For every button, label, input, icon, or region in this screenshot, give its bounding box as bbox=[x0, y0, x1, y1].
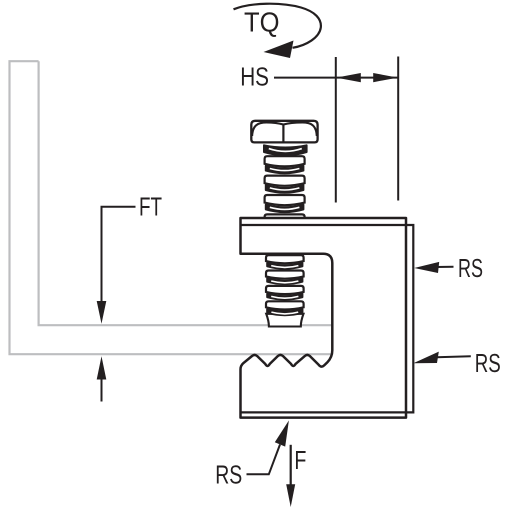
HS right extension line bbox=[397, 57, 399, 201]
HS right arrowhead bbox=[373, 73, 398, 82]
F arrowhead bbox=[286, 484, 295, 507]
RS bottom arrowhead bbox=[275, 420, 289, 446]
bolt hex head outline bbox=[251, 121, 317, 143]
torque arrow ellipse arc bbox=[234, 4, 321, 48]
RS lower leader bbox=[437, 356, 471, 357]
RS bottom leader bbox=[247, 445, 281, 475]
FT up arrowhead bbox=[97, 356, 107, 379]
HS left arrowhead bbox=[336, 73, 361, 82]
bolt hex head center edge bbox=[282, 124, 284, 143]
bolt thread ring 8 (inside clamp mouth) bbox=[266, 301, 304, 309]
svg-text:TQ: TQ bbox=[244, 7, 280, 38]
beam: angle iron vertical leg and flange (gray) bbox=[10, 61, 334, 354]
bolt thread ring 7 (inside clamp mouth) bbox=[266, 286, 304, 294]
HS left extension line bbox=[335, 57, 337, 203]
RS upper leader bbox=[436, 266, 454, 268]
svg-text:RS: RS bbox=[475, 348, 501, 378]
svg-text:F: F bbox=[294, 445, 306, 475]
bolt thread ring 4 (above clamp) bbox=[265, 214, 305, 224]
bolt thread ring 3 (above clamp) bbox=[265, 195, 305, 205]
svg-text:RS: RS bbox=[458, 253, 483, 283]
FT up arrow tail bbox=[101, 379, 103, 402]
FT down arrowhead bbox=[97, 301, 107, 324]
bolt collar under head bbox=[264, 145, 307, 155]
svg-text:FT: FT bbox=[139, 192, 162, 222]
svg-text:HS: HS bbox=[240, 61, 269, 91]
bolt thread ring 1 (above clamp) bbox=[265, 156, 305, 166]
bolt tip bbox=[266, 314, 303, 327]
RS lower arrowhead bbox=[413, 352, 439, 364]
bolt thread ring 6 (inside clamp mouth) bbox=[266, 271, 304, 279]
svg-text:RS: RS bbox=[215, 459, 242, 489]
bolt hex head left chamfer arc bbox=[252, 122, 283, 136]
HS leader line bbox=[274, 77, 336, 79]
torque arrowhead bbox=[264, 41, 294, 59]
FT leader bend bbox=[102, 207, 136, 302]
clamp body C-shape with serrated jaw bbox=[241, 218, 407, 418]
bolt thread ring 5 (inside clamp mouth) bbox=[266, 255, 304, 263]
HS dimension line bbox=[336, 77, 398, 79]
clamp back plate (right side) bbox=[241, 225, 414, 412]
bolt thread ring 2 (above clamp) bbox=[265, 176, 305, 186]
bolt hex head right chamfer arc bbox=[283, 122, 316, 136]
F arrow line bbox=[290, 445, 292, 485]
RS upper arrowhead bbox=[414, 262, 439, 273]
beam: angle iron inner edge and flange top surface bbox=[39, 61, 333, 325]
